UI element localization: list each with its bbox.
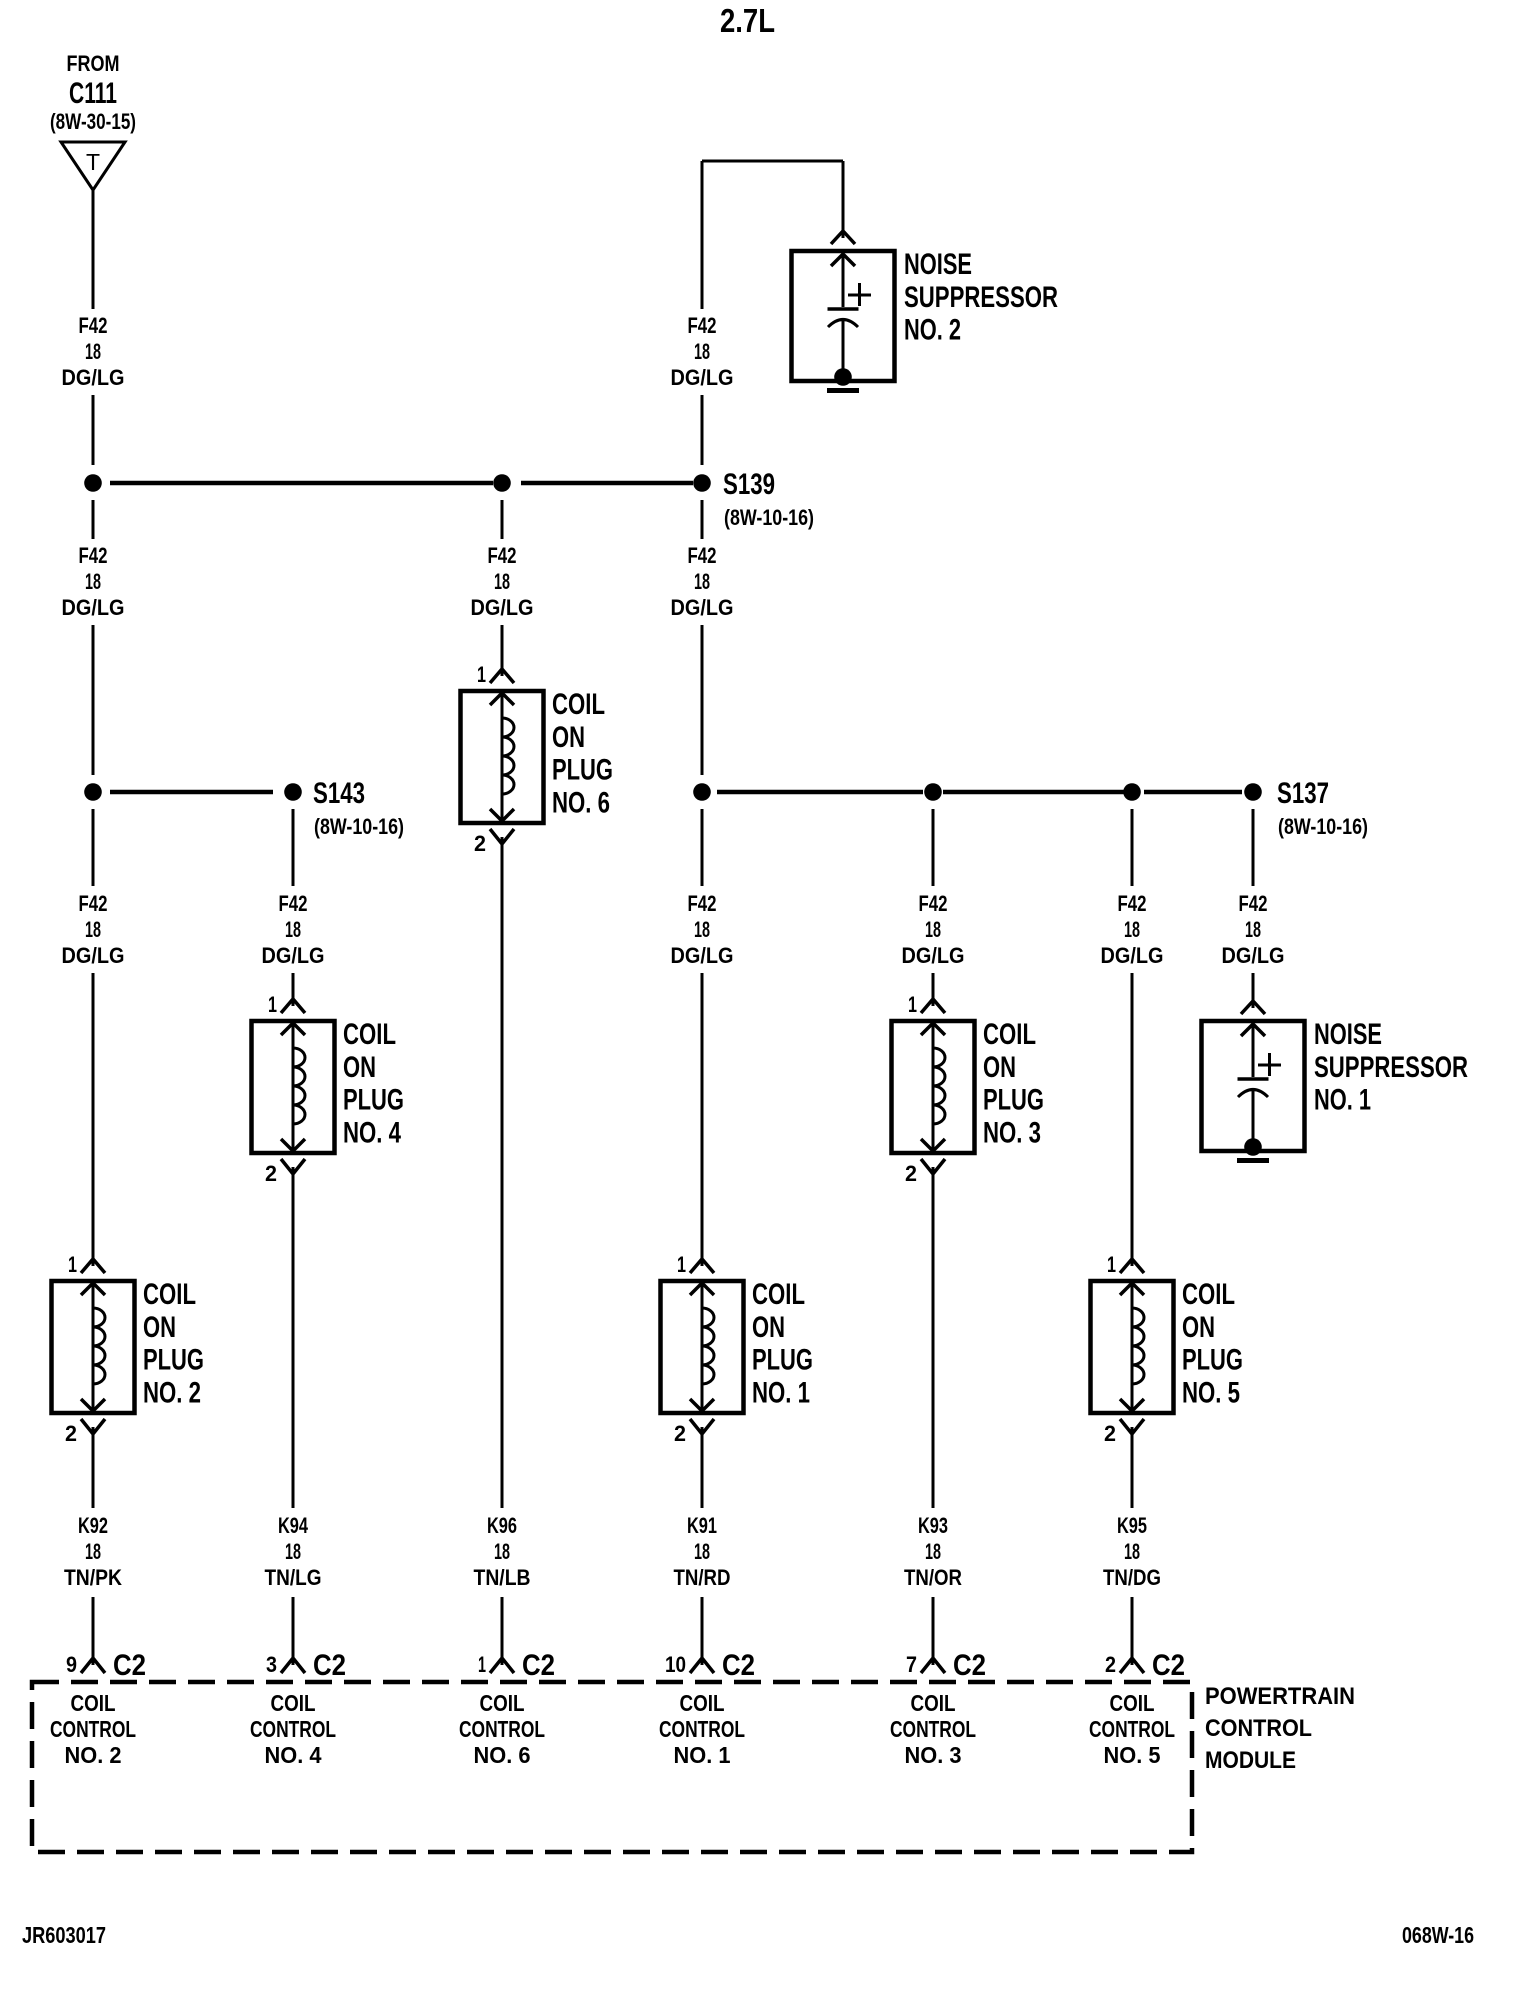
wire splice S137 bus segment 2 xyxy=(943,790,1124,795)
wire F42 column 4 mid xyxy=(701,500,704,775)
svg-text:COIL: COIL xyxy=(271,1690,316,1716)
svg-text:K92: K92 xyxy=(78,1513,108,1538)
svg-text:K94: K94 xyxy=(278,1513,309,1538)
label K96 18 TN/LB xyxy=(474,1513,531,1590)
wire splice S139 bus segment right xyxy=(521,481,693,486)
svg-text:1: 1 xyxy=(478,1652,486,1677)
svg-text:NO. 2: NO. 2 xyxy=(143,1376,201,1409)
svg-text:DG/LG: DG/LG xyxy=(62,365,125,390)
svg-text:F42: F42 xyxy=(688,543,717,568)
wire F42 column 1 upper xyxy=(92,190,95,465)
pin 10 connector C2 coil control no.1 xyxy=(665,1649,755,1682)
svg-text:18: 18 xyxy=(85,1539,101,1564)
PCM terminal coil control no.4 xyxy=(250,1690,336,1768)
svg-text:CONTROL: CONTROL xyxy=(1205,1715,1312,1742)
svg-text:ON: ON xyxy=(343,1051,376,1084)
svg-text:NO. 4: NO. 4 xyxy=(265,1742,322,1768)
svg-text:TN/RD: TN/RD xyxy=(674,1565,731,1590)
svg-text:7: 7 xyxy=(906,1652,917,1677)
svg-text:DG/LG: DG/LG xyxy=(1222,943,1285,968)
PCM terminal coil control no.3 xyxy=(890,1690,976,1768)
svg-text:PLUG: PLUG xyxy=(983,1084,1044,1117)
pin 2 connector C2 coil control no.5 xyxy=(1105,1649,1185,1682)
svg-text:C2: C2 xyxy=(313,1649,346,1682)
junction dot col1 on splice S139 bus xyxy=(84,474,102,492)
svg-text:FROM: FROM xyxy=(67,51,120,76)
svg-text:SUPPRESSOR: SUPPRESSOR xyxy=(904,281,1058,314)
wire feed to noise suppressor no.2 xyxy=(702,161,843,231)
svg-text:C2: C2 xyxy=(722,1649,755,1682)
svg-text:F42: F42 xyxy=(79,543,108,568)
wire K96 column 3 xyxy=(501,844,504,1658)
wire splice S139 bus segment left xyxy=(110,481,493,486)
ground at noise suppressor no.1 xyxy=(1237,1138,1269,1160)
wire F42 column 4 lower xyxy=(701,809,704,1259)
svg-text:2: 2 xyxy=(265,1161,277,1186)
svg-text:F42: F42 xyxy=(688,313,717,338)
svg-text:F42: F42 xyxy=(488,543,517,568)
svg-text:CONTROL: CONTROL xyxy=(1089,1716,1175,1742)
svg-text:18: 18 xyxy=(1124,917,1140,942)
svg-text:NO. 3: NO. 3 xyxy=(983,1116,1041,1149)
svg-text:18: 18 xyxy=(694,1539,710,1564)
svg-text:F42: F42 xyxy=(79,891,108,916)
label K93 18 TN/OR xyxy=(904,1513,962,1590)
svg-text:10: 10 xyxy=(665,1652,686,1677)
svg-text:18: 18 xyxy=(85,569,101,594)
svg-text:COIL: COIL xyxy=(680,1690,725,1716)
svg-text:NO. 2: NO. 2 xyxy=(904,314,961,347)
svg-text:NO. 1: NO. 1 xyxy=(1314,1084,1371,1117)
wire F42 column 7 xyxy=(1252,809,1255,1001)
node S137 label xyxy=(1277,777,1368,839)
wire F42 column 1 lower xyxy=(92,809,95,1259)
svg-text:18: 18 xyxy=(1124,1539,1140,1564)
coil on plug no.2 xyxy=(52,1252,205,1446)
connector C111 header xyxy=(50,51,136,134)
svg-text:TN/PK: TN/PK xyxy=(64,1565,122,1590)
PCM terminal coil control no.1 xyxy=(659,1690,745,1768)
svg-text:NO. 1: NO. 1 xyxy=(674,1742,731,1768)
svg-text:1: 1 xyxy=(1107,1252,1116,1277)
svg-text:COIL: COIL xyxy=(343,1018,396,1051)
svg-text:F42: F42 xyxy=(79,313,108,338)
ground at noise suppressor no.2 xyxy=(827,368,859,390)
svg-text:CONTROL: CONTROL xyxy=(890,1716,976,1742)
PCM terminal coil control no.5 xyxy=(1089,1690,1175,1768)
label F42 18 DG/LG col5 xyxy=(902,891,965,968)
svg-text:COIL: COIL xyxy=(911,1690,956,1716)
svg-text:18: 18 xyxy=(285,917,301,942)
svg-text:K91: K91 xyxy=(687,1513,717,1538)
svg-text:F42: F42 xyxy=(1239,891,1268,916)
svg-text:JR603017: JR603017 xyxy=(22,1922,106,1948)
svg-text:COIL: COIL xyxy=(1182,1278,1235,1311)
svg-text:TN/LB: TN/LB xyxy=(474,1565,531,1590)
coil on plug no.4 xyxy=(252,992,405,1186)
svg-text:CONTROL: CONTROL xyxy=(50,1716,136,1742)
svg-text:CONTROL: CONTROL xyxy=(250,1716,336,1742)
label F42 18 DG/LG col4 low xyxy=(671,891,734,968)
wire F42 column 3 xyxy=(501,500,504,669)
svg-text:2: 2 xyxy=(1105,1652,1116,1677)
svg-text:18: 18 xyxy=(85,917,101,942)
wire F42 column 6 xyxy=(1131,809,1134,1259)
svg-text:ON: ON xyxy=(143,1311,176,1344)
svg-text:18: 18 xyxy=(285,1539,301,1564)
svg-text:1: 1 xyxy=(477,662,486,687)
svg-text:PLUG: PLUG xyxy=(343,1084,404,1117)
svg-text:COIL: COIL xyxy=(552,688,605,721)
pin 3 connector C2 coil control no.4 xyxy=(266,1649,346,1682)
label K92 18 TN/PK xyxy=(64,1513,122,1590)
svg-text:C111: C111 xyxy=(69,77,117,110)
svg-text:2: 2 xyxy=(674,1421,686,1446)
node S139 label xyxy=(723,468,814,530)
svg-text:DG/LG: DG/LG xyxy=(1101,943,1164,968)
svg-text:F42: F42 xyxy=(279,891,308,916)
svg-text:18: 18 xyxy=(925,1539,941,1564)
svg-text:F42: F42 xyxy=(688,891,717,916)
svg-text:S143: S143 xyxy=(313,777,365,810)
wire F42 column 5 xyxy=(932,809,935,999)
svg-text:2: 2 xyxy=(1104,1421,1116,1446)
junction dot col3 on splice S139 bus xyxy=(493,474,511,492)
svg-text:DG/LG: DG/LG xyxy=(262,943,325,968)
svg-text:POWERTRAIN: POWERTRAIN xyxy=(1205,1683,1355,1710)
wire K92 column 1 xyxy=(92,1434,95,1658)
svg-text:C2: C2 xyxy=(1152,1649,1185,1682)
svg-text:CONTROL: CONTROL xyxy=(659,1716,745,1742)
svg-text:NO. 1: NO. 1 xyxy=(752,1376,810,1409)
svg-text:18: 18 xyxy=(694,569,710,594)
svg-text:F42: F42 xyxy=(919,891,948,916)
svg-text:SUPPRESSOR: SUPPRESSOR xyxy=(1314,1051,1468,1084)
label K95 18 TN/DG xyxy=(1103,1513,1161,1590)
svg-text:18: 18 xyxy=(694,339,710,364)
pin 1 connector C2 coil control no.6 xyxy=(478,1649,555,1682)
svg-text:ON: ON xyxy=(752,1311,785,1344)
noise suppressor no.2 xyxy=(792,231,1059,381)
junction dot col6 on splice S137 bus xyxy=(1123,783,1141,801)
svg-text:TN/LG: TN/LG xyxy=(265,1565,322,1590)
pin 9 connector C2 coil control no.2 xyxy=(66,1649,146,1682)
svg-text:1: 1 xyxy=(268,992,277,1017)
label K91 18 TN/RD xyxy=(674,1513,731,1590)
wire F42 column 1 between buses xyxy=(92,500,95,775)
node S139 junction dot xyxy=(693,474,711,492)
svg-text:3: 3 xyxy=(266,1652,277,1677)
svg-text:18: 18 xyxy=(85,339,101,364)
svg-text:(8W-10-16): (8W-10-16) xyxy=(314,814,404,839)
coil on plug no.5 xyxy=(1091,1252,1244,1446)
svg-text:COIL: COIL xyxy=(983,1018,1036,1051)
svg-text:9: 9 xyxy=(66,1652,77,1677)
svg-text:ON: ON xyxy=(552,721,585,754)
svg-text:K93: K93 xyxy=(918,1513,948,1538)
svg-text:TN/OR: TN/OR xyxy=(904,1565,962,1590)
coil on plug no.3 xyxy=(892,992,1045,1186)
wire K93 column 5 xyxy=(932,1174,935,1658)
svg-text:NOISE: NOISE xyxy=(904,248,972,281)
PCM terminal coil control no.2 xyxy=(50,1690,136,1768)
wire K95 column 6 xyxy=(1131,1434,1134,1658)
svg-text:2: 2 xyxy=(65,1421,77,1446)
label K94 18 TN/LG xyxy=(265,1513,322,1590)
svg-text:18: 18 xyxy=(925,917,941,942)
connector C111 triangle symbol xyxy=(61,142,125,190)
svg-text:S139: S139 xyxy=(723,468,775,501)
svg-text:PLUG: PLUG xyxy=(143,1344,204,1377)
svg-text:1: 1 xyxy=(908,992,917,1017)
svg-text:18: 18 xyxy=(1245,917,1261,942)
svg-text:PLUG: PLUG xyxy=(552,754,613,787)
coil on plug no.6 xyxy=(461,662,614,856)
svg-text:NO. 2: NO. 2 xyxy=(65,1742,122,1768)
label F42 18 DG/LG col7 xyxy=(1222,891,1285,968)
coil on plug no.1 xyxy=(661,1252,814,1446)
svg-text:F42: F42 xyxy=(1118,891,1147,916)
svg-text:DG/LG: DG/LG xyxy=(471,595,534,620)
junction dot col5 on splice S137 bus xyxy=(924,783,942,801)
label F42 18 DG/LG col1 above bus S139 xyxy=(62,313,125,390)
svg-text:DG/LG: DG/LG xyxy=(671,943,734,968)
svg-text:NOISE: NOISE xyxy=(1314,1018,1382,1051)
svg-text:068W-16: 068W-16 xyxy=(1402,1922,1474,1948)
wire F42 column 2 xyxy=(292,809,295,999)
powertrain control module dashed box xyxy=(32,1682,1192,1852)
svg-text:K95: K95 xyxy=(1117,1513,1147,1538)
svg-text:ON: ON xyxy=(983,1051,1016,1084)
svg-text:COIL: COIL xyxy=(143,1278,196,1311)
svg-text:NO. 6: NO. 6 xyxy=(474,1742,531,1768)
svg-text:CONTROL: CONTROL xyxy=(459,1716,545,1742)
svg-text:COIL: COIL xyxy=(480,1690,525,1716)
svg-text:(8W-10-16): (8W-10-16) xyxy=(724,505,814,530)
svg-text:C2: C2 xyxy=(113,1649,146,1682)
svg-text:2.7L: 2.7L xyxy=(720,2,775,39)
svg-text:PLUG: PLUG xyxy=(1182,1344,1243,1377)
label F42 18 DG/LG col4 mid xyxy=(671,543,734,620)
label F42 18 DG/LG col2 xyxy=(262,891,325,968)
label F42 18 DG/LG col3 xyxy=(471,543,534,620)
svg-text:DG/LG: DG/LG xyxy=(671,365,734,390)
svg-text:1: 1 xyxy=(68,1252,77,1277)
svg-text:ON: ON xyxy=(1182,1311,1215,1344)
label F42 18 DG/LG col1 low xyxy=(62,891,125,968)
svg-text:2: 2 xyxy=(474,831,486,856)
junction dot col1 on splice S143 bus xyxy=(84,783,102,801)
svg-text:DG/LG: DG/LG xyxy=(62,595,125,620)
svg-text:NO. 3: NO. 3 xyxy=(905,1742,962,1768)
svg-text:DG/LG: DG/LG xyxy=(62,943,125,968)
svg-text:DG/LG: DG/LG xyxy=(902,943,965,968)
svg-text:PLUG: PLUG xyxy=(752,1344,813,1377)
svg-text:NO. 5: NO. 5 xyxy=(1104,1742,1161,1768)
svg-text:T: T xyxy=(86,149,100,175)
label F42 18 DG/LG col6 xyxy=(1101,891,1164,968)
wire K91 column 4 xyxy=(701,1434,704,1658)
label F42 18 DG/LG col1 mid xyxy=(62,543,125,620)
svg-text:COIL: COIL xyxy=(71,1690,116,1716)
svg-text:S137: S137 xyxy=(1277,777,1329,810)
pin 7 connector C2 coil control no.3 xyxy=(906,1649,986,1682)
svg-text:COIL: COIL xyxy=(752,1278,805,1311)
svg-text:DG/LG: DG/LG xyxy=(671,595,734,620)
svg-text:1: 1 xyxy=(677,1252,686,1277)
svg-text:NO. 4: NO. 4 xyxy=(343,1116,401,1149)
PCM terminal coil control no.6 xyxy=(459,1690,545,1768)
svg-text:18: 18 xyxy=(694,917,710,942)
wire K94 column 2 xyxy=(292,1174,295,1658)
powertrain control module label xyxy=(1205,1683,1355,1774)
svg-text:NO. 6: NO. 6 xyxy=(552,786,610,819)
svg-text:(8W-10-16): (8W-10-16) xyxy=(1278,814,1368,839)
svg-text:K96: K96 xyxy=(487,1513,517,1538)
noise suppressor no.1 xyxy=(1202,1001,1469,1151)
wire F42 column 4 upper xyxy=(701,161,704,465)
svg-text:COIL: COIL xyxy=(1110,1690,1155,1716)
svg-text:C2: C2 xyxy=(953,1649,986,1682)
svg-text:TN/DG: TN/DG xyxy=(1103,1565,1161,1590)
node S137 bus junction dot col4 xyxy=(693,783,711,801)
svg-text:(8W-30-15): (8W-30-15) xyxy=(50,109,136,134)
svg-text:MODULE: MODULE xyxy=(1205,1747,1296,1774)
svg-text:NO. 5: NO. 5 xyxy=(1182,1376,1240,1409)
node S143 junction dot xyxy=(284,783,302,801)
svg-text:C2: C2 xyxy=(522,1649,555,1682)
node S137 junction dot xyxy=(1244,783,1262,801)
svg-text:18: 18 xyxy=(494,569,510,594)
wire splice S137 bus segment 3 xyxy=(1144,790,1242,795)
node S143 label xyxy=(313,777,404,839)
label F42 18 DG/LG col4 above S139 xyxy=(671,313,734,390)
wire splice S143 bus segment xyxy=(110,790,273,795)
wire splice S137 bus segment 1 xyxy=(717,790,923,795)
svg-text:2: 2 xyxy=(905,1161,917,1186)
svg-text:18: 18 xyxy=(494,1539,510,1564)
